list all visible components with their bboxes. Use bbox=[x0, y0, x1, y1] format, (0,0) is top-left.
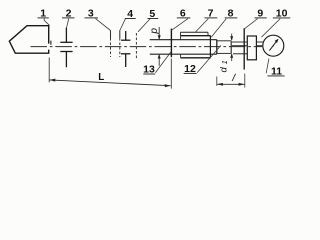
small shaft top edge bbox=[150, 39, 217, 41]
sleeve top edge bbox=[180, 35, 210, 37]
indicator clamp block bbox=[247, 36, 256, 60]
shaft tip bottom edge bbox=[217, 52, 231, 54]
rod into dial bbox=[256, 41, 263, 43]
dimension L line bbox=[49, 80, 170, 86]
indicator bracket line bbox=[233, 53, 247, 55]
leader 3 bbox=[96, 19, 111, 31]
face symbol at chuck lower crossbar bbox=[121, 53, 130, 55]
leader 8 bbox=[211, 19, 226, 37]
dimension l left extension bbox=[216, 77, 218, 86]
svg-text:1: 1 bbox=[222, 60, 229, 64]
tailstock body (pentagon) bbox=[9, 26, 48, 54]
part 3 hidden line bbox=[110, 30, 112, 38]
sleeve left edge upper tick bbox=[180, 36, 182, 40]
chuck face line bbox=[170, 29, 172, 58]
dimension d lower arrow bbox=[158, 55, 160, 66]
dimension d1 lower arrow bbox=[231, 54, 233, 61]
dial needle bbox=[269, 40, 277, 51]
sleeve right edge bbox=[209, 36, 211, 58]
mandrel shoulder face bbox=[216, 40, 218, 55]
svg-text:d: d bbox=[149, 28, 160, 34]
dial needle arrowhead bbox=[275, 39, 279, 43]
center tip edge bbox=[50, 41, 52, 45]
indicator rod top edge bbox=[232, 41, 247, 43]
dimension d upper arrow bbox=[158, 27, 160, 39]
svg-text:d: d bbox=[218, 66, 229, 72]
key on sleeve top bbox=[181, 31, 209, 33]
leader 9 bbox=[244, 19, 257, 29]
part 2 lower crossbar bbox=[60, 51, 72, 53]
dial indicator body bbox=[263, 35, 284, 56]
small shaft bottom edge bbox=[150, 53, 217, 55]
dimension d1 upper arrow bbox=[231, 34, 233, 40]
leader 11 bbox=[266, 59, 269, 74]
part 5 hidden line bbox=[135, 33, 137, 59]
dimension L right extension bbox=[170, 59, 172, 89]
centerline (axis) bbox=[31, 46, 263, 48]
dimension l right extension bbox=[244, 74, 246, 88]
leader 13 bbox=[155, 52, 171, 73]
face symbol at chuck lower stem bbox=[125, 54, 127, 67]
leader 6 bbox=[171, 19, 188, 31]
indicator rod bottom edge bbox=[232, 45, 247, 47]
leader 2 bbox=[67, 19, 69, 28]
leader 7 bbox=[195, 19, 208, 33]
dimension l line bbox=[217, 83, 245, 85]
face symbol at chuck upper crossbar bbox=[121, 39, 130, 41]
part 2 upper crossbar bbox=[60, 41, 72, 43]
leader 4 bbox=[120, 19, 126, 31]
shaft tip end face bbox=[230, 41, 232, 54]
dimension L left extension bbox=[48, 58, 50, 83]
part 2 face symbol upper stem bbox=[65, 28, 67, 43]
leader 5 bbox=[138, 19, 150, 32]
svg-text:L: L bbox=[98, 72, 104, 83]
face symbol at chuck upper stem bbox=[125, 31, 127, 40]
part 4 hidden line bbox=[119, 30, 121, 38]
part 2 face symbol lower stem bbox=[65, 52, 67, 68]
indicator stand post bbox=[243, 28, 245, 69]
leader 10 bbox=[261, 19, 280, 38]
shaft tip top edge bbox=[217, 40, 231, 42]
leader 1 bbox=[44, 18, 49, 25]
sleeve left edge lower tick bbox=[180, 54, 182, 58]
sleeve bottom edge bbox=[180, 57, 210, 59]
leader 12 bbox=[197, 45, 221, 72]
